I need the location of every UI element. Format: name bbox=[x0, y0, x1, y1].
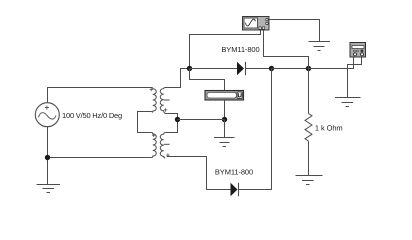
oscilloscope XSC1 bbox=[243, 17, 270, 31]
wire bottom rail to node B riser bbox=[239, 69, 272, 190]
wire node A down to voltmeter bbox=[190, 69, 225, 91]
transformer T1 secondary winding S2 (bottom) bbox=[160, 133, 169, 159]
node center tap bbox=[175, 117, 180, 122]
svg-text:1 k Ohm: 1 k Ohm bbox=[315, 124, 343, 133]
wire S2 bottom to bottom rail bbox=[167, 157, 231, 190]
node junction at source bottom bbox=[45, 155, 50, 160]
ground under multimeter bbox=[335, 98, 361, 107]
wire junction to primary bottom bbox=[48, 157, 152, 159]
svg-text:BYM11-800: BYM11-800 bbox=[215, 168, 253, 177]
voltmeter U bbox=[205, 91, 244, 101]
wire multimeter left terminal stub bbox=[353, 57, 355, 69]
resistor R1 1k bbox=[305, 114, 312, 142]
wire junction down to ground bbox=[47, 158, 49, 185]
AC source V1 bbox=[35, 103, 59, 127]
ground under voltmeter bbox=[214, 138, 235, 147]
wire node C down to resistor bbox=[308, 69, 310, 114]
wire source top to primary bbox=[48, 88, 152, 103]
transformer T1 primary winding P1 (top) bbox=[150, 88, 157, 113]
wire node A up to oscilloscope input A bbox=[190, 30, 261, 69]
wire resistor to ground bbox=[308, 141, 310, 175]
wire diode D1 to node B bbox=[246, 68, 272, 70]
node D bbox=[222, 117, 227, 122]
wire multimeter right terminal to ground bbox=[348, 57, 362, 98]
wire node C to multimeter left terminal bbox=[309, 57, 354, 69]
wire oscilloscope input B down and to node C bbox=[264, 30, 309, 69]
wire center tap to S2 top bbox=[165, 120, 177, 133]
wire S1 top to node A bbox=[165, 69, 190, 88]
ground under source bbox=[37, 185, 61, 193]
transformer primary series link bbox=[138, 112, 152, 133]
wire center tap to node D bbox=[178, 119, 225, 121]
wire node D to ground bbox=[224, 120, 226, 138]
wire source bottom to junction bbox=[47, 127, 49, 158]
ground under resistor bbox=[296, 176, 323, 185]
wire S1 bottom to center tap bbox=[165, 114, 178, 120]
svg-text:BYM11-800: BYM11-800 bbox=[221, 45, 259, 54]
node C bbox=[306, 66, 311, 71]
wire voltmeter bottom to node D bbox=[224, 100, 226, 120]
transformer T1 primary winding P2 (bottom) bbox=[152, 133, 156, 158]
wire oscilloscope right terminal to ground bbox=[269, 20, 320, 42]
svg-text:100 V/50 Hz/0 Deg: 100 V/50 Hz/0 Deg bbox=[62, 111, 122, 120]
diode D2 BYM11-800 bbox=[231, 183, 239, 196]
wire top rail node A to diode D1 bbox=[190, 68, 238, 70]
transformer T1 secondary winding S1 (top) bbox=[160, 88, 169, 114]
node B bbox=[269, 66, 274, 71]
diode D1 BYM11-800 bbox=[237, 62, 246, 75]
wire node B to node C bbox=[272, 68, 309, 70]
multimeter XMM1 bbox=[350, 43, 366, 58]
node A bbox=[187, 66, 192, 71]
ground right of oscilloscope bbox=[309, 42, 331, 51]
